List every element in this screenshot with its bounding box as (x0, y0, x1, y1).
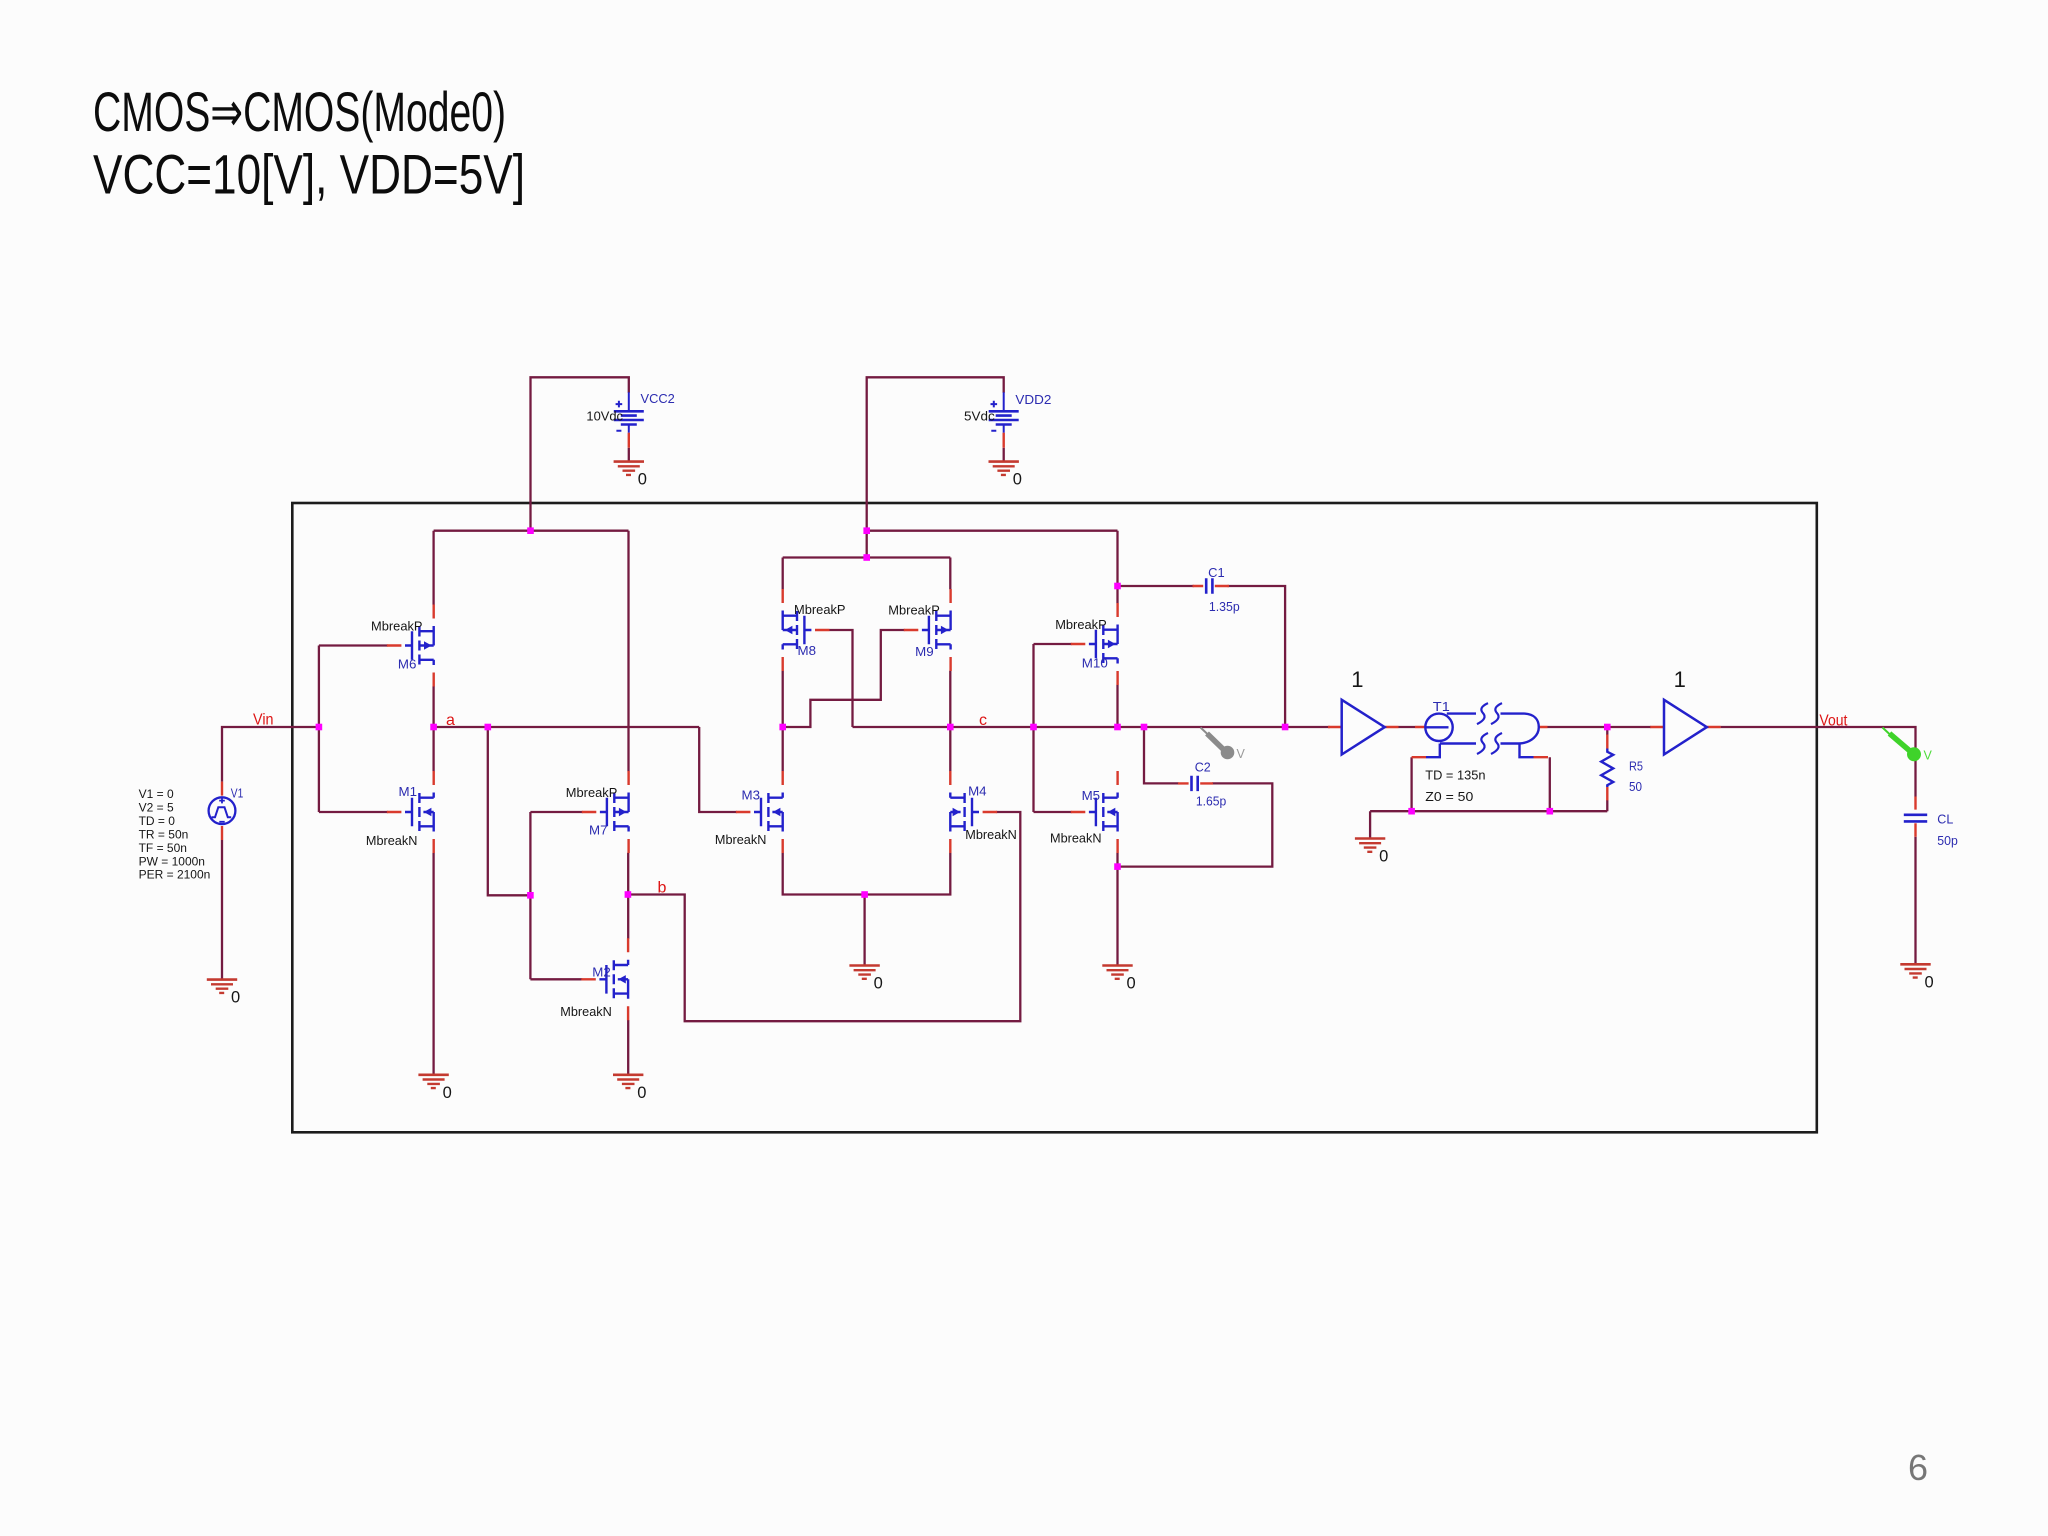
svg-text:C1: C1 (1208, 565, 1225, 580)
svg-text:1.35p: 1.35p (1209, 599, 1240, 614)
svg-text:10Vdc: 10Vdc (586, 409, 623, 424)
svg-text:M4: M4 (968, 784, 987, 799)
svg-text:50: 50 (1629, 779, 1642, 794)
svg-text:1: 1 (1351, 667, 1363, 692)
svg-text:Z0 = 50: Z0 = 50 (1425, 789, 1473, 804)
svg-text:PER = 2100n: PER = 2100n (139, 868, 211, 882)
svg-text:Vin: Vin (253, 712, 274, 729)
svg-text:0: 0 (1013, 471, 1022, 489)
svg-text:MbreakN: MbreakN (366, 833, 418, 848)
svg-text:c: c (979, 712, 987, 729)
svg-text:TD = 135n: TD = 135n (1425, 768, 1485, 783)
svg-text:0: 0 (638, 471, 647, 489)
svg-text:M6: M6 (398, 657, 417, 672)
svg-text:VCC=10[V], VDD=5V]: VCC=10[V], VDD=5V] (93, 143, 525, 206)
svg-text:TD = 0: TD = 0 (139, 814, 176, 828)
svg-text:V1: V1 (231, 786, 244, 801)
svg-text:M10: M10 (1082, 656, 1108, 671)
svg-text:0: 0 (1127, 975, 1136, 993)
svg-text:0: 0 (231, 989, 240, 1007)
svg-text:TF = 50n: TF = 50n (139, 841, 187, 855)
svg-text:PW = 1000n: PW = 1000n (139, 854, 205, 868)
svg-text:a: a (446, 712, 455, 729)
svg-text:M2: M2 (592, 965, 611, 980)
svg-text:M3: M3 (742, 788, 761, 803)
svg-text:CL: CL (1937, 812, 1953, 827)
svg-text:M1: M1 (399, 784, 418, 799)
svg-text:0: 0 (637, 1084, 646, 1102)
svg-text:1.65p: 1.65p (1196, 793, 1226, 808)
svg-text:b: b (658, 880, 667, 897)
svg-text:CMOS⇒CMOS(Mode0): CMOS⇒CMOS(Mode0) (93, 80, 506, 143)
svg-text:MbreakN: MbreakN (715, 832, 767, 847)
svg-text:C2: C2 (1195, 760, 1211, 775)
svg-text:6: 6 (1908, 1447, 1928, 1488)
svg-text:V2 = 5: V2 = 5 (139, 800, 174, 814)
svg-text:1: 1 (1674, 667, 1686, 692)
svg-text:R5: R5 (1629, 759, 1643, 774)
svg-text:VCC2: VCC2 (641, 391, 675, 406)
svg-text:MbreakP: MbreakP (1055, 617, 1107, 632)
svg-text:MbreakN: MbreakN (560, 1004, 612, 1019)
svg-text:M9: M9 (915, 644, 934, 659)
svg-text:0: 0 (1925, 973, 1934, 991)
svg-text:50p: 50p (1937, 833, 1958, 848)
svg-text:0: 0 (1379, 848, 1388, 866)
svg-text:Vout: Vout (1819, 713, 1847, 730)
svg-text:MbreakP: MbreakP (566, 785, 618, 800)
svg-text:MbreakN: MbreakN (1050, 831, 1102, 846)
svg-text:M8: M8 (798, 643, 817, 658)
svg-text:V1 = 0: V1 = 0 (139, 787, 174, 801)
svg-text:MbreakN: MbreakN (965, 827, 1017, 842)
svg-text:0: 0 (874, 975, 883, 993)
svg-text:5Vdc: 5Vdc (964, 409, 995, 424)
svg-text:0: 0 (443, 1084, 452, 1102)
svg-text:M5: M5 (1082, 788, 1101, 803)
svg-text:T1: T1 (1433, 699, 1450, 714)
svg-text:M7: M7 (589, 823, 608, 838)
svg-text:VDD2: VDD2 (1015, 392, 1051, 407)
svg-text:V: V (1924, 749, 1933, 763)
svg-text:V: V (1237, 747, 1246, 761)
svg-text:MbreakP: MbreakP (888, 603, 940, 618)
svg-text:MbreakP: MbreakP (371, 619, 423, 634)
svg-text:TR = 50n: TR = 50n (139, 827, 189, 841)
svg-text:MbreakP: MbreakP (794, 602, 846, 617)
